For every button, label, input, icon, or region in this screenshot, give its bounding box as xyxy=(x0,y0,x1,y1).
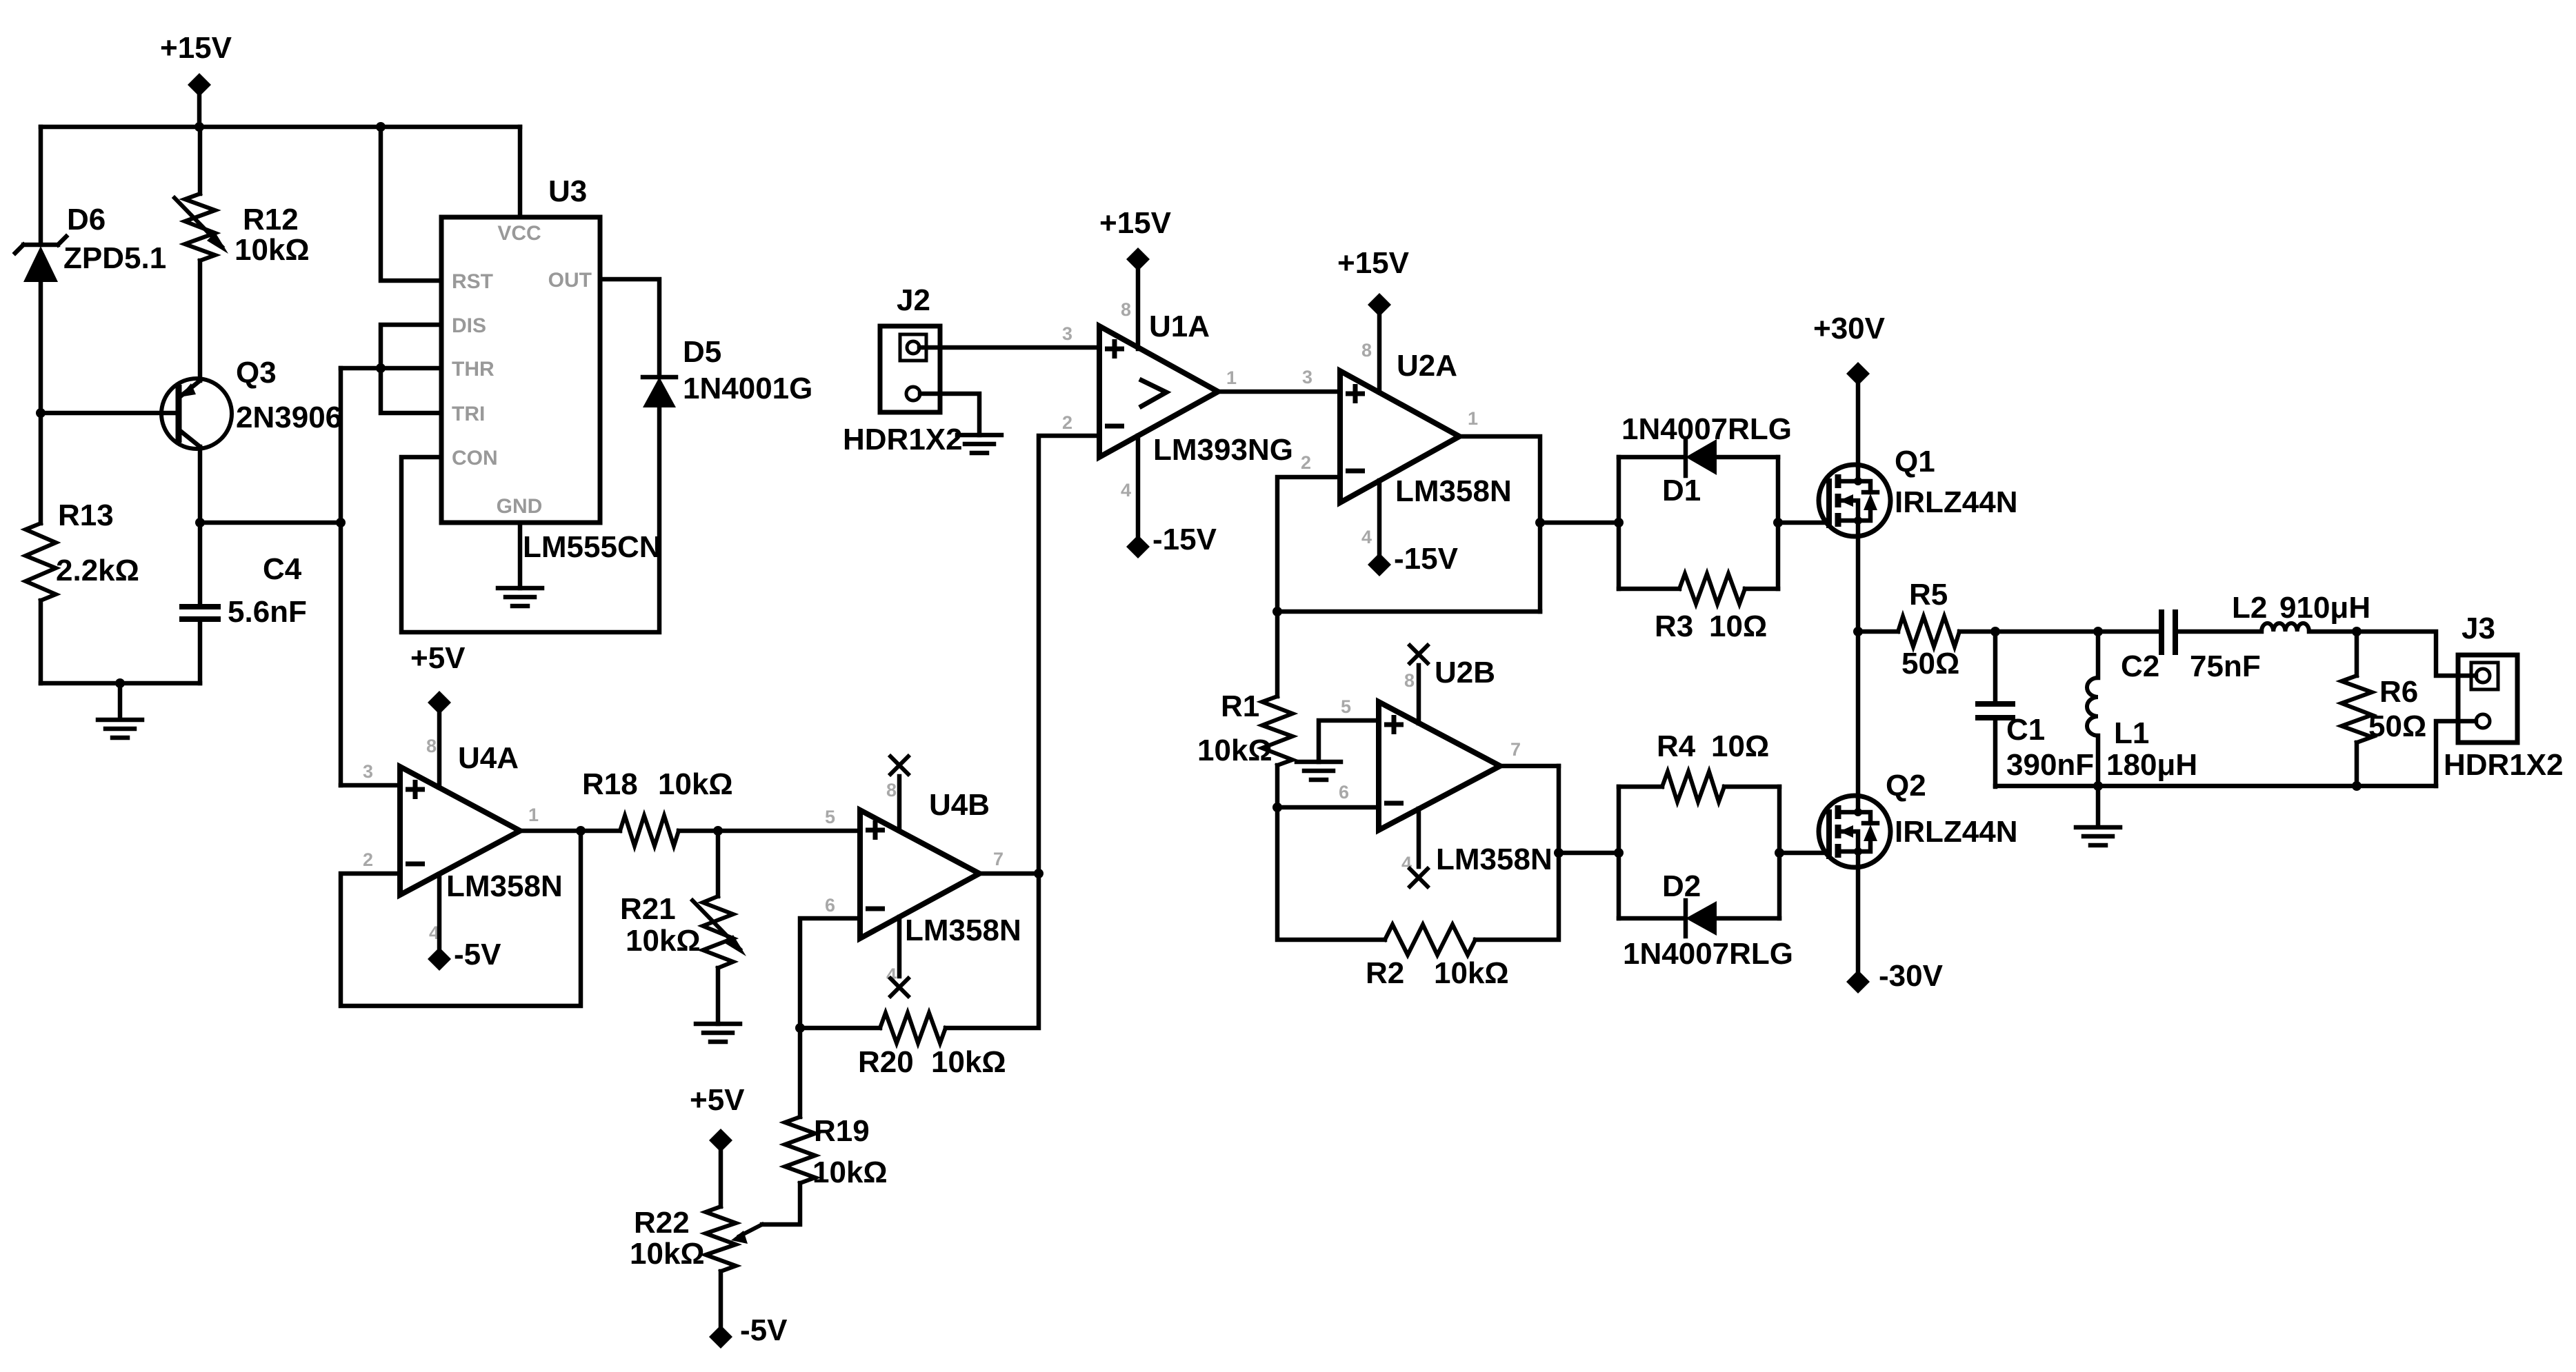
wire bottom left rail xyxy=(41,681,200,686)
wire U2B out to D2/R4 xyxy=(1559,851,1619,856)
svg-text:-5V: -5V xyxy=(740,1313,788,1347)
wire R20 left xyxy=(800,1026,880,1031)
node junction base of Q3 xyxy=(36,408,46,418)
svg-text:10Ω: 10Ω xyxy=(1709,609,1767,643)
svg-text:R4: R4 xyxy=(1657,729,1696,763)
node junction D1R3 left xyxy=(1614,518,1624,527)
wire Q1 source to Q2 drain xyxy=(1856,536,1861,796)
diode D6 zener symbol xyxy=(15,236,66,253)
IC U3 box xyxy=(441,217,600,523)
node junction top rail at RST branch xyxy=(376,122,386,132)
wire to Q1 gate xyxy=(1778,521,1829,525)
node junction DIS/THR xyxy=(376,363,386,373)
svg-text:6: 6 xyxy=(825,895,835,916)
node junction THR column xyxy=(336,518,346,527)
svg-text:5: 5 xyxy=(825,807,835,827)
connector J2 HDR1X2 xyxy=(880,326,940,412)
node junction C1 tap xyxy=(1990,627,2000,636)
op-amp U4A triangle xyxy=(400,767,520,895)
wire U2B out xyxy=(1500,764,1559,769)
node junction ground tap xyxy=(115,678,125,688)
svg-text:C4: C4 xyxy=(263,552,302,586)
op-amp U4B triangle xyxy=(860,810,979,938)
wire R2 loop right xyxy=(1475,766,1559,940)
wire U2A -in / R1 top xyxy=(1277,477,1340,696)
svg-text:6: 6 xyxy=(1339,782,1349,803)
resistor R4 body xyxy=(1662,771,1724,802)
node junction midpoint xyxy=(1853,627,1863,636)
svg-text:1N4001G: 1N4001G xyxy=(683,372,812,405)
svg-text:75nF: 75nF xyxy=(2190,649,2261,683)
wire U4B out xyxy=(979,871,1039,876)
svg-text:10kΩ: 10kΩ xyxy=(626,924,701,958)
wire R1 bottom xyxy=(1275,765,1280,807)
wire VCC pin xyxy=(518,127,523,217)
capacitor C4 xyxy=(179,607,221,619)
wire RST pin xyxy=(381,127,441,281)
ground symbol G6 xyxy=(2076,786,2120,845)
wire U4B out to U1A -in xyxy=(1039,436,1099,874)
node junction R6 bottom xyxy=(2352,781,2362,791)
svg-text:ZPD5.1: ZPD5.1 xyxy=(63,241,166,275)
svg-text:10kΩ: 10kΩ xyxy=(234,233,310,267)
resistor R1 body xyxy=(1262,696,1292,765)
svg-text:LM358N: LM358N xyxy=(1436,843,1552,876)
wire Q3 base xyxy=(41,411,179,416)
svg-text:D5: D5 xyxy=(683,335,721,369)
node junction L1 bottom xyxy=(2093,781,2103,791)
svg-text:-30V: -30V xyxy=(1879,959,1944,993)
svg-text:LM358N: LM358N xyxy=(446,869,563,903)
svg-text:10kΩ: 10kΩ xyxy=(630,1237,705,1271)
wire D2R4 left rail xyxy=(1617,787,1621,918)
node junction U2B out tap xyxy=(1554,848,1564,858)
svg-text:R21: R21 xyxy=(620,892,676,926)
svg-text:R12: R12 xyxy=(243,203,299,236)
svg-text:3: 3 xyxy=(1062,323,1072,344)
diode D2 1N4007RLG xyxy=(1619,900,1779,936)
svg-text:Q2: Q2 xyxy=(1886,769,1926,803)
svg-text:HDR1X2: HDR1X2 xyxy=(843,423,963,456)
svg-text:R18: R18 xyxy=(582,767,638,801)
wire R19 to R22 wiper xyxy=(762,1183,800,1224)
resistor R20 body xyxy=(880,1013,946,1043)
svg-text:8: 8 xyxy=(426,736,437,756)
node junction D2R4 right xyxy=(1775,848,1784,858)
svg-text:10kΩ: 10kΩ xyxy=(812,1156,888,1189)
svg-text:+15V: +15V xyxy=(1099,206,1172,240)
no-connect X U4B top xyxy=(889,755,910,776)
wire D2R4 right rail xyxy=(1777,787,1782,918)
wire DIS-TRI strap xyxy=(381,325,441,413)
wire R13 bottom xyxy=(39,601,43,683)
wire J2 pin1 to U1A xyxy=(919,345,1099,350)
wire R2 loop left xyxy=(1277,807,1385,940)
svg-text:D6: D6 xyxy=(67,203,106,236)
wire left branch to D6 xyxy=(39,127,43,245)
node junction collector/C4 xyxy=(195,518,205,527)
resistor R18 body xyxy=(620,816,679,846)
svg-text:Q3: Q3 xyxy=(236,356,277,390)
svg-text:R5: R5 xyxy=(1909,578,1948,612)
resistor R19 body xyxy=(785,1117,815,1183)
wire U2A feedback xyxy=(1277,609,1540,614)
svg-text:THR: THR xyxy=(452,358,495,381)
resistor R6 body xyxy=(2342,676,2372,743)
svg-text:-5V: -5V xyxy=(454,938,501,971)
node junction D1R3 right xyxy=(1773,518,1783,527)
transistor Q2 IRLZ44N xyxy=(1819,796,1890,867)
wire U2B +in xyxy=(1319,720,1379,762)
resistor R13 body xyxy=(26,523,56,601)
svg-text:TRI: TRI xyxy=(452,403,485,425)
svg-text:L1: L1 xyxy=(2114,716,2149,750)
wire U4B -in xyxy=(800,918,860,1028)
node junction top rail at R12 xyxy=(194,122,204,132)
svg-text:+15V: +15V xyxy=(160,31,232,65)
no-connect X U2B bottom xyxy=(1408,867,1429,888)
wire THR column down to U4A +in xyxy=(339,368,343,785)
svg-text:R3: R3 xyxy=(1655,609,1693,643)
svg-text:8: 8 xyxy=(1361,340,1372,361)
svg-text:CON: CON xyxy=(452,447,498,470)
wire R18 to U4B xyxy=(679,829,860,834)
wire bottom rail xyxy=(1995,784,2436,789)
svg-text:50Ω: 50Ω xyxy=(2368,709,2426,743)
connector J3 HDR1X2 xyxy=(2458,655,2517,743)
svg-text:1: 1 xyxy=(528,805,539,825)
no-connect X U4B bottom xyxy=(889,977,910,998)
no-connect X U2B top xyxy=(1408,644,1429,665)
resistor R2 body xyxy=(1385,925,1475,955)
transistor Q1 IRLZ44N xyxy=(1819,465,1890,536)
svg-text:R1: R1 xyxy=(1221,689,1259,723)
svg-text:5: 5 xyxy=(1341,696,1351,717)
svg-text:GND: GND xyxy=(497,495,543,518)
svg-text:D1: D1 xyxy=(1662,474,1701,507)
resistor R12 variable body xyxy=(185,194,215,261)
svg-text:10kΩ: 10kΩ xyxy=(658,767,733,801)
svg-text:RST: RST xyxy=(452,270,493,293)
svg-text:C2: C2 xyxy=(2121,649,2159,683)
svg-text:10Ω: 10Ω xyxy=(1711,729,1769,763)
wire U2A out to D1/R3 xyxy=(1540,521,1619,525)
svg-text:2: 2 xyxy=(363,849,373,870)
svg-text:7: 7 xyxy=(993,849,1004,869)
svg-text:U4B: U4B xyxy=(929,788,990,822)
svg-text:180μH: 180μH xyxy=(2106,748,2197,782)
svg-text:390nF: 390nF xyxy=(2006,748,2094,782)
op-amp U2B triangle xyxy=(1379,702,1500,830)
svg-text:LM555CN: LM555CN xyxy=(523,530,661,564)
svg-text:Q1: Q1 xyxy=(1895,445,1935,478)
transistor Q3 2N3906 xyxy=(161,379,232,449)
wire D1R3 right rail xyxy=(1776,457,1781,589)
svg-text:D2: D2 xyxy=(1662,869,1701,903)
potentiometer R22 body xyxy=(706,1207,736,1271)
svg-text:-15V: -15V xyxy=(1394,542,1459,576)
svg-text:1: 1 xyxy=(1226,367,1237,388)
svg-text:IRLZ44N: IRLZ44N xyxy=(1895,815,2017,849)
ground symbol G2 xyxy=(498,588,542,606)
capacitor C2 xyxy=(2161,609,2175,655)
svg-text:L2: L2 xyxy=(2232,591,2267,625)
resistor R3 body xyxy=(1679,574,1745,604)
svg-text:910μH: 910μH xyxy=(2279,591,2370,625)
wire U4A feedback loop xyxy=(341,831,581,1006)
wire THR pin xyxy=(341,366,441,371)
node junction L2/R6 xyxy=(2352,627,2362,636)
svg-text:4: 4 xyxy=(1121,480,1131,501)
node junction R1/U2B-in xyxy=(1272,803,1282,812)
svg-text:5.6nF: 5.6nF xyxy=(228,595,307,629)
wire U2B -in xyxy=(1277,805,1379,810)
svg-text:10kΩ: 10kΩ xyxy=(1197,734,1272,767)
svg-text:3: 3 xyxy=(363,761,373,782)
wire J2 pin2 to ground xyxy=(920,394,979,435)
svg-text:2.2kΩ: 2.2kΩ xyxy=(56,554,139,587)
inductor L2 xyxy=(2262,623,2309,632)
node junction U4B out xyxy=(1034,869,1044,878)
wire U1A out xyxy=(1218,390,1340,394)
svg-text:8: 8 xyxy=(886,780,897,800)
wire U2A out xyxy=(1459,436,1540,612)
svg-text:J3: J3 xyxy=(2462,612,2495,645)
wire +15V top rail xyxy=(41,125,520,130)
wire R5 to C2 xyxy=(1959,629,2161,634)
node junction R18/R21 xyxy=(713,826,723,836)
diode D5 1N4001G xyxy=(643,375,676,380)
wire CON loop xyxy=(401,407,659,632)
svg-text:8: 8 xyxy=(1121,299,1131,320)
svg-text:50Ω: 50Ω xyxy=(1901,647,1959,680)
svg-text:2: 2 xyxy=(1301,452,1311,473)
svg-text:U2B: U2B xyxy=(1435,656,1495,689)
svg-text:LM358N: LM358N xyxy=(1395,474,1512,508)
svg-text:3: 3 xyxy=(1302,367,1312,387)
svg-text:1N4007RLG: 1N4007RLG xyxy=(1623,937,1793,971)
svg-text:10kΩ: 10kΩ xyxy=(1434,956,1509,990)
svg-text:R20: R20 xyxy=(858,1045,914,1079)
svg-text:LM358N: LM358N xyxy=(905,914,1021,947)
resistor R21 variable xyxy=(703,896,733,968)
svg-text:J2: J2 xyxy=(897,283,930,317)
svg-text:C1: C1 xyxy=(2006,713,2045,747)
svg-text:IRLZ44N: IRLZ44N xyxy=(1895,485,2017,519)
svg-text:U1A: U1A xyxy=(1149,310,1210,343)
svg-text:VCC: VCC xyxy=(497,222,541,245)
svg-text:-15V: -15V xyxy=(1152,523,1217,556)
wire U4A +in xyxy=(341,783,400,788)
svg-text:OUT: OUT xyxy=(548,269,592,292)
svg-text:8: 8 xyxy=(1404,670,1415,691)
svg-text:R2: R2 xyxy=(1366,956,1404,990)
wire D1R3 left rail xyxy=(1617,457,1621,589)
svg-text:U3: U3 xyxy=(548,174,587,208)
svg-text:2: 2 xyxy=(1062,412,1072,433)
wire GND pin xyxy=(518,523,523,588)
inductor L1 xyxy=(2087,678,2098,736)
svg-text:+5V: +5V xyxy=(690,1083,745,1117)
wire D6 to R13 xyxy=(39,413,43,523)
svg-text:+15V: +15V xyxy=(1337,246,1410,280)
ground symbol G3 xyxy=(957,435,1001,453)
wire U4A out xyxy=(520,829,620,834)
diode D1 1N4007RLG xyxy=(1619,438,1778,476)
svg-text:HDR1X2: HDR1X2 xyxy=(2444,748,2564,782)
node junction U2A out tap xyxy=(1535,518,1545,527)
svg-text:R13: R13 xyxy=(58,498,114,532)
svg-text:U4A: U4A xyxy=(458,741,519,775)
ground symbol G4 xyxy=(696,1024,740,1042)
wire to R19 xyxy=(798,1028,803,1117)
wire U4B out down to R20 xyxy=(946,874,1039,1028)
svg-text:U2A: U2A xyxy=(1397,349,1457,383)
ground symbol G5 xyxy=(1297,762,1341,780)
node junction D2R4 left xyxy=(1614,848,1624,858)
svg-text:+5V: +5V xyxy=(410,641,466,675)
svg-text:4: 4 xyxy=(1361,527,1372,547)
svg-text:R22: R22 xyxy=(634,1206,690,1240)
svg-text:R19: R19 xyxy=(814,1114,870,1148)
node junction U2A feedback xyxy=(1272,607,1282,616)
capacitor C1 xyxy=(1975,704,2015,718)
node junction L1 tap xyxy=(2093,627,2103,636)
svg-text:7: 7 xyxy=(1510,739,1521,760)
wire Q2 gate xyxy=(1779,851,1829,856)
op-amp U2A triangle xyxy=(1340,371,1459,503)
wire collector to U4A tap xyxy=(200,521,341,525)
op-amp U1A triangle xyxy=(1099,326,1218,457)
node junction U4A out xyxy=(576,826,586,836)
svg-text:+30V: +30V xyxy=(1813,312,1886,345)
wire to J3 pin2 xyxy=(2436,721,2476,786)
wire to J3 pin1 xyxy=(2357,632,2476,676)
svg-text:1: 1 xyxy=(1468,408,1478,429)
svg-text:2N3906: 2N3906 xyxy=(236,401,342,434)
svg-text:1N4007RLG: 1N4007RLG xyxy=(1621,412,1792,446)
svg-text:LM393NG: LM393NG xyxy=(1153,433,1293,467)
ground symbol G1 xyxy=(98,683,142,738)
resistor R5 body xyxy=(1898,616,1959,647)
svg-text:R6: R6 xyxy=(2379,675,2418,709)
node junction R19/R20 xyxy=(795,1023,805,1033)
svg-text:DIS: DIS xyxy=(452,314,486,337)
svg-text:10kΩ: 10kΩ xyxy=(931,1045,1006,1079)
